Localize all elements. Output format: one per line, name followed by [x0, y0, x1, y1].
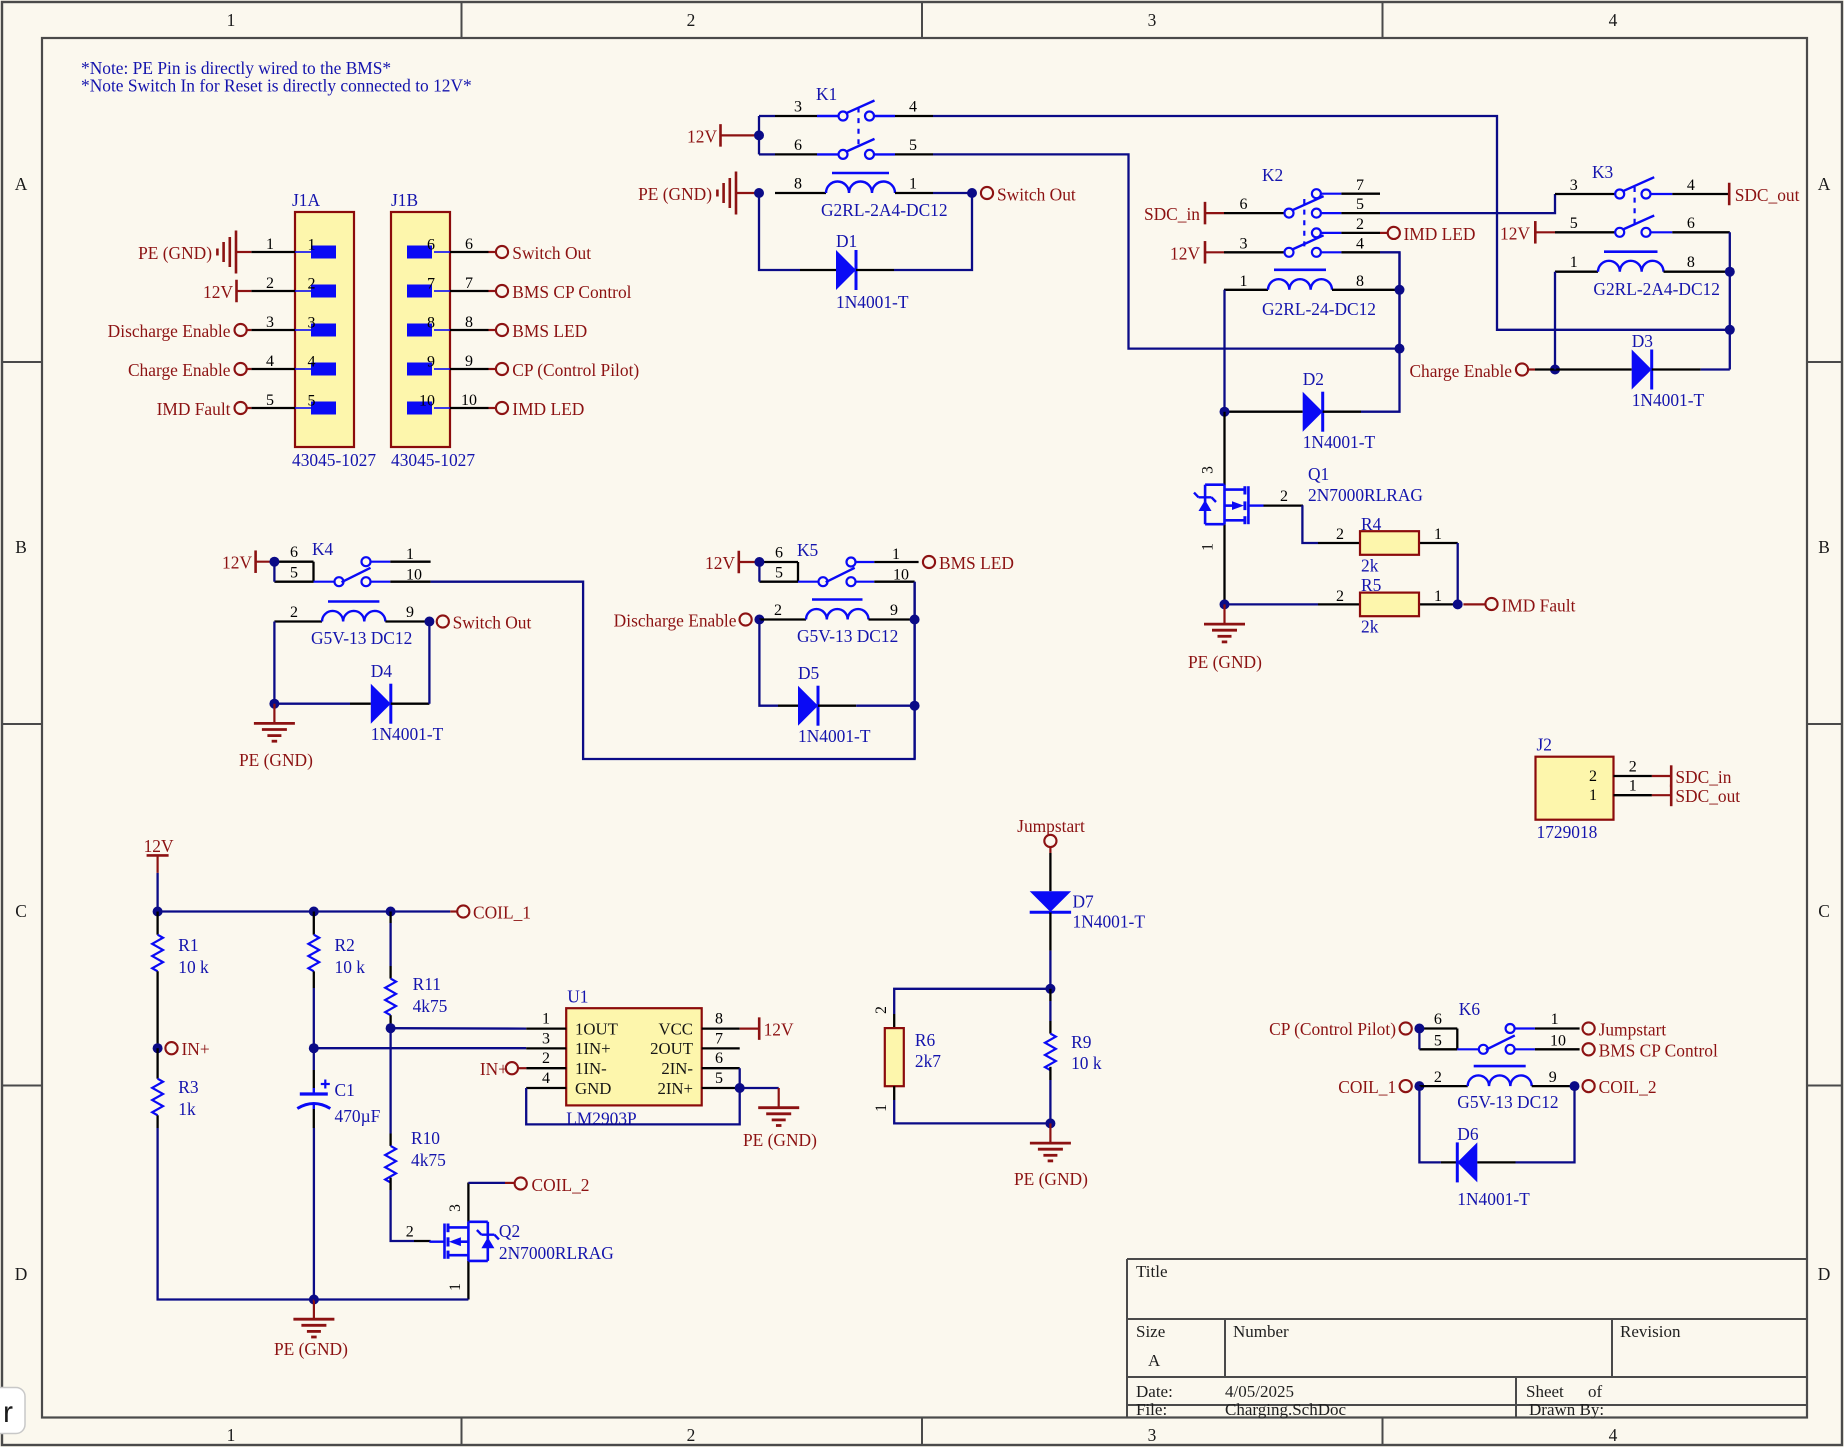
wire K5 pin 10 down [913, 582, 915, 759]
svg-text:470µF: 470µF [335, 1106, 381, 1126]
wire to U1 pin 1 [391, 1027, 527, 1030]
svg-text:Title: Title [1136, 1262, 1168, 1281]
svg-text:Jumpstart: Jumpstart [1017, 816, 1085, 836]
power port 12V at U1 VCC [740, 1027, 760, 1029]
svg-text:6: 6 [1240, 196, 1248, 213]
net label BMS LED at J1B [489, 329, 497, 331]
svg-text:Q2: Q2 [499, 1221, 520, 1241]
svg-text:1N4001-T: 1N4001-T [1303, 432, 1376, 452]
svg-text:D: D [15, 1264, 28, 1284]
svg-text:3: 3 [1200, 466, 1217, 474]
wire 12V horizontal rail [158, 910, 451, 912]
junction at R5 pin 1 [1453, 599, 1463, 609]
svg-text:D5: D5 [798, 663, 820, 683]
svg-text:1N4001-T: 1N4001-T [836, 292, 909, 312]
junction at K4 12V [269, 557, 279, 567]
svg-text:12V: 12V [764, 1020, 794, 1040]
svg-text:43045-1027: 43045-1027 [391, 450, 475, 470]
svg-text:R10: R10 [411, 1128, 440, 1148]
ground PE (GND) at K4 [273, 704, 275, 723]
svg-text:2k7: 2k7 [915, 1051, 941, 1071]
wire C1 to ground rail [313, 1128, 315, 1300]
svg-text:U1: U1 [567, 987, 588, 1007]
net label BMS CP Control at J1B [489, 290, 497, 292]
svg-text:BMS CP Control: BMS CP Control [512, 282, 631, 302]
wire K2 pin 4 down [1380, 252, 1400, 348]
svg-text:10 k: 10 k [335, 957, 366, 977]
svg-text:B: B [15, 537, 27, 557]
svg-text:G5V-13 DC12: G5V-13 DC12 [311, 628, 412, 648]
svg-text:5: 5 [1570, 215, 1578, 232]
svg-text:Sheet: Sheet [1526, 1382, 1564, 1401]
svg-text:2: 2 [406, 1224, 414, 1241]
junction at K1 coil pin 8 [754, 188, 764, 198]
wire U1 pin 6 to pin 5 [739, 1068, 741, 1088]
wire K1 pole feed [758, 116, 760, 154]
tooltip artifact [0, 1388, 25, 1434]
svg-text:1: 1 [266, 236, 274, 253]
svg-text:IN+: IN+ [480, 1059, 508, 1079]
svg-text:D2: D2 [1303, 369, 1324, 389]
svg-text:1: 1 [227, 10, 236, 30]
wire R10 to Q2 gate [391, 1190, 414, 1241]
net label Switch Out at K1 coil pin 1 [981, 187, 993, 199]
ground PE (GND) at R9 [1049, 1123, 1051, 1142]
svg-text:4: 4 [909, 99, 917, 116]
svg-text:3: 3 [794, 99, 802, 116]
svg-text:8: 8 [427, 315, 435, 332]
svg-text:K3: K3 [1592, 162, 1614, 182]
svg-text:G5V-13 DC12: G5V-13 DC12 [797, 626, 898, 646]
svg-text:7: 7 [465, 275, 473, 292]
svg-text:5: 5 [775, 565, 783, 582]
svg-text:C: C [15, 901, 27, 921]
svg-text:2: 2 [687, 10, 696, 30]
svg-text:SDC_in: SDC_in [1144, 204, 1200, 224]
junction at IN+ node [153, 1043, 163, 1053]
wire K2 coil loop [1223, 290, 1225, 412]
svg-text:4: 4 [1356, 236, 1364, 253]
net label BMS LED at K5 pin 1 [923, 556, 935, 568]
net label COIL_2 at Q2 drain [468, 1182, 505, 1184]
svg-text:9: 9 [1549, 1069, 1557, 1086]
svg-text:File:: File: [1136, 1400, 1167, 1419]
wire D7 to R9 [1049, 951, 1051, 989]
svg-text:2: 2 [1434, 1069, 1442, 1086]
svg-text:Number: Number [1233, 1322, 1289, 1341]
svg-text:IMD LED: IMD LED [512, 399, 584, 419]
svg-text:1729018: 1729018 [1537, 822, 1598, 842]
svg-text:4: 4 [1609, 1425, 1618, 1445]
svg-text:COIL_2: COIL_2 [532, 1175, 590, 1195]
svg-text:12V: 12V [705, 553, 735, 573]
net label COIL_1 at rail [450, 910, 457, 912]
net label Jumpstart at K6 pin 1 [1583, 1022, 1595, 1034]
svg-text:B: B [1818, 537, 1830, 557]
wire K2 pin 5 to K3 pin 3 [1380, 194, 1555, 213]
svg-text:3: 3 [542, 1030, 550, 1047]
svg-text:2: 2 [1629, 759, 1637, 776]
svg-text:VCC: VCC [658, 1019, 693, 1038]
svg-text:R1: R1 [178, 935, 198, 955]
svg-text:1N4001-T: 1N4001-T [1632, 390, 1705, 410]
svg-text:PE (GND): PE (GND) [239, 750, 313, 770]
svg-text:PE (GND): PE (GND) [743, 1130, 817, 1150]
svg-text:5: 5 [715, 1070, 723, 1087]
wire K3 coil loop [1554, 272, 1556, 370]
svg-text:2: 2 [774, 602, 782, 619]
svg-text:of: of [1588, 1382, 1603, 1401]
svg-text:Drawn By:: Drawn By: [1529, 1400, 1604, 1419]
wire 12V rail [156, 873, 158, 912]
junction at K5 12V [754, 557, 764, 567]
connector J1A [295, 212, 354, 447]
svg-text:Date:: Date: [1136, 1382, 1173, 1401]
svg-text:1: 1 [1570, 254, 1578, 271]
svg-text:9: 9 [890, 602, 898, 619]
svg-text:2: 2 [542, 1050, 550, 1067]
net label IMD LED at K2 pin 2 [1380, 232, 1388, 234]
svg-text:9: 9 [465, 353, 473, 370]
svg-text:12V: 12V [144, 836, 174, 856]
svg-text:4: 4 [1687, 177, 1695, 194]
svg-text:r: r [3, 1396, 13, 1429]
svg-text:12V: 12V [687, 126, 717, 146]
svg-text:1N4001-T: 1N4001-T [798, 726, 871, 746]
wire Q2 source to rail [314, 1298, 469, 1300]
svg-text:2: 2 [1356, 216, 1364, 233]
net label Switch Out at J1B [489, 251, 497, 253]
svg-text:R11: R11 [413, 974, 441, 994]
junction at R11 top [386, 907, 396, 917]
wire R2 to C1 [313, 988, 315, 1048]
junction at K4 ground node [269, 699, 279, 709]
svg-text:12V: 12V [222, 553, 252, 573]
svg-text:10: 10 [1550, 1032, 1566, 1049]
svg-text:1: 1 [1434, 588, 1442, 605]
svg-text:5: 5 [1356, 196, 1364, 213]
svg-text:5: 5 [1434, 1032, 1442, 1049]
svg-text:*Note Switch In for Reset is d: *Note Switch In for Reset is directly co… [81, 76, 472, 96]
svg-text:D7: D7 [1073, 892, 1095, 912]
svg-text:2k: 2k [1361, 556, 1379, 576]
svg-text:R2: R2 [335, 935, 355, 955]
svg-text:J1A: J1A [292, 190, 320, 210]
svg-text:Charge Enable: Charge Enable [1409, 361, 1512, 381]
svg-text:PE (GND): PE (GND) [638, 184, 712, 204]
svg-text:1: 1 [909, 176, 917, 193]
junction at K5 coil pin 9 [910, 615, 920, 625]
svg-text:5: 5 [266, 392, 274, 409]
svg-text:Revision: Revision [1620, 1322, 1681, 1341]
svg-text:10 k: 10 k [178, 957, 209, 977]
svg-text:2: 2 [687, 1425, 696, 1445]
svg-text:G5V-13 DC12: G5V-13 DC12 [1457, 1092, 1558, 1112]
svg-text:G2RL-2A4-DC12: G2RL-2A4-DC12 [821, 200, 948, 220]
svg-text:1: 1 [1200, 543, 1217, 551]
wire R6 bottom [894, 1100, 1050, 1123]
svg-text:D1: D1 [836, 231, 857, 251]
svg-text:1: 1 [1551, 1011, 1559, 1028]
svg-text:4: 4 [542, 1070, 550, 1087]
wire net from K1 pin 5 [933, 154, 1400, 348]
svg-text:4k75: 4k75 [411, 1150, 446, 1170]
svg-text:4: 4 [1609, 10, 1618, 30]
svg-text:Q1: Q1 [1308, 464, 1329, 484]
junction at K6 coil pin 9 [1570, 1081, 1580, 1091]
svg-text:K1: K1 [816, 84, 837, 104]
junction at K3 coil pin 8 [1725, 267, 1735, 277]
junction at R9 top [1045, 984, 1055, 994]
svg-text:8: 8 [1356, 273, 1364, 290]
power port 12V top of divider [147, 854, 169, 857]
svg-text:D6: D6 [1457, 1124, 1479, 1144]
connector J1B [391, 212, 450, 447]
svg-text:SDC_in: SDC_in [1675, 767, 1731, 787]
svg-text:2: 2 [308, 276, 316, 293]
svg-text:K2: K2 [1262, 165, 1283, 185]
junction at K6 coil pin 2 [1414, 1081, 1424, 1091]
svg-text:1: 1 [1434, 526, 1442, 543]
net label IN+ left [165, 1042, 177, 1054]
junction at K1 coil pin 1 [967, 188, 977, 198]
svg-text:8: 8 [715, 1011, 723, 1028]
svg-text:1N4001-T: 1N4001-T [1073, 912, 1146, 932]
wire R4 to R5 [1457, 543, 1459, 604]
svg-text:Discharge Enable: Discharge Enable [614, 611, 737, 631]
junction at K4 coil pin 9 [424, 617, 434, 627]
svg-text:2: 2 [1336, 588, 1344, 605]
svg-text:5: 5 [909, 137, 917, 154]
svg-text:CP (Control Pilot): CP (Control Pilot) [512, 360, 639, 380]
svg-text:CP (Control Pilot): CP (Control Pilot) [1269, 1019, 1396, 1039]
svg-text:7: 7 [427, 276, 435, 293]
svg-text:2: 2 [266, 275, 274, 292]
net label CP (Control Pilot) at J1B [489, 368, 497, 370]
wire Q1 source to R5 [1225, 603, 1319, 605]
svg-text:Switch Out: Switch Out [453, 613, 532, 633]
net label BMS CP Control at K6 pin 10 [1583, 1043, 1595, 1055]
svg-text:9: 9 [427, 354, 435, 371]
junction at D3 anode [1550, 365, 1560, 375]
svg-text:COIL_1: COIL_1 [1338, 1077, 1396, 1097]
svg-text:COIL_1: COIL_1 [473, 903, 531, 923]
svg-text:2N7000RLRAG: 2N7000RLRAG [499, 1243, 614, 1263]
svg-text:2: 2 [1589, 768, 1597, 785]
svg-text:2IN+: 2IN+ [657, 1079, 693, 1098]
svg-text:1: 1 [308, 237, 316, 254]
svg-text:6: 6 [465, 236, 473, 253]
svg-text:5: 5 [290, 565, 298, 582]
svg-text:3: 3 [1240, 236, 1248, 253]
svg-text:2N7000RLRAG: 2N7000RLRAG [1308, 485, 1423, 505]
junction at K1 12V [754, 130, 764, 140]
wire K4 pin 10 to K5 [431, 582, 915, 759]
svg-text:6: 6 [1687, 215, 1695, 232]
svg-text:1: 1 [227, 1425, 236, 1445]
svg-text:IMD LED: IMD LED [1404, 224, 1476, 244]
svg-text:C1: C1 [335, 1080, 355, 1100]
svg-text:2: 2 [290, 604, 298, 621]
connector J2 1729018 [1536, 757, 1614, 820]
svg-text:1N4001-T: 1N4001-T [1457, 1189, 1530, 1209]
svg-text:K5: K5 [797, 540, 819, 560]
svg-text:D: D [1818, 1264, 1831, 1284]
svg-text:2: 2 [873, 1006, 890, 1014]
svg-text:4: 4 [266, 353, 274, 370]
svg-text:3: 3 [1148, 1425, 1157, 1445]
svg-text:1: 1 [892, 546, 900, 563]
svg-text:1IN+: 1IN+ [575, 1039, 611, 1058]
wire K4 coil loop [274, 622, 350, 704]
svg-text:J1B: J1B [391, 190, 418, 210]
power port SDC_out at J2 pin 1 [1652, 794, 1671, 796]
svg-text:COIL_2: COIL_2 [1599, 1077, 1657, 1097]
capacitor C1 470uF [313, 1048, 315, 1070]
svg-text:6: 6 [427, 237, 435, 254]
svg-text:1IN-: 1IN- [575, 1059, 607, 1078]
wire to R6 top [894, 989, 1050, 1014]
svg-text:A: A [1818, 174, 1831, 194]
svg-text:5: 5 [308, 393, 316, 410]
svg-text:1: 1 [1629, 778, 1637, 795]
svg-text:12V: 12V [1500, 223, 1530, 243]
power port SDC_out at K3 pin 4 [1728, 183, 1731, 206]
svg-text:2: 2 [1280, 488, 1288, 505]
svg-text:1: 1 [873, 1104, 890, 1112]
op-amp U1 LM2903P [566, 1008, 702, 1105]
power port SDC_in at J2 pin 2 [1652, 775, 1671, 777]
svg-text:Size: Size [1136, 1322, 1165, 1341]
wire K1 snubber loop [759, 193, 800, 270]
net label IMD Fault at R5 [1463, 603, 1485, 605]
net label Switch Out at K4 [437, 615, 449, 627]
svg-text:PE (GND): PE (GND) [138, 243, 212, 263]
svg-text:7: 7 [715, 1030, 723, 1047]
svg-text:6: 6 [775, 545, 783, 562]
wire net from K1 pin 4 [933, 116, 1730, 330]
svg-text:C: C [1818, 901, 1830, 921]
svg-text:GND: GND [575, 1079, 611, 1098]
svg-text:3: 3 [266, 314, 274, 331]
svg-text:BMS CP Control: BMS CP Control [1599, 1040, 1718, 1060]
wire K3 pin 6 down [1729, 232, 1731, 369]
svg-text:10: 10 [419, 393, 435, 410]
junction at R9 bottom [1045, 1118, 1055, 1128]
svg-text:1: 1 [1240, 273, 1248, 290]
svg-text:4: 4 [308, 354, 316, 371]
svg-text:IMD Fault: IMD Fault [157, 399, 231, 419]
junction at K5 coil pin 2 [754, 615, 764, 625]
svg-text:4/05/2025: 4/05/2025 [1225, 1382, 1294, 1401]
svg-text:3: 3 [447, 1204, 464, 1212]
svg-text:9: 9 [406, 604, 414, 621]
svg-text:1: 1 [542, 1011, 550, 1028]
svg-text:1: 1 [406, 546, 414, 563]
wire U1 GND loop [526, 1088, 740, 1124]
svg-text:K6: K6 [1459, 999, 1481, 1019]
svg-text:BMS LED: BMS LED [939, 553, 1014, 573]
svg-text:2IN-: 2IN- [661, 1059, 693, 1078]
ground PE (GND) at Q1 source [1223, 604, 1225, 623]
junction at K5 snubber [910, 701, 920, 711]
svg-text:IN+: IN+ [182, 1039, 210, 1059]
svg-text:1: 1 [1589, 787, 1597, 804]
svg-text:2: 2 [1336, 526, 1344, 543]
svg-text:10 k: 10 k [1071, 1053, 1102, 1073]
svg-text:1OUT: 1OUT [575, 1019, 618, 1038]
svg-text:PE (GND): PE (GND) [274, 1339, 348, 1359]
svg-text:3: 3 [308, 315, 316, 332]
junction at U1 1OUT node [386, 1023, 396, 1033]
svg-text:6: 6 [715, 1050, 723, 1067]
svg-text:8: 8 [1687, 254, 1695, 271]
wire K5 coil loop [759, 620, 778, 706]
svg-text:Discharge Enable: Discharge Enable [108, 321, 231, 341]
svg-text:12V: 12V [1170, 243, 1200, 263]
junction at K2 coil pin 8 [1395, 285, 1405, 295]
svg-text:PE (GND): PE (GND) [1188, 652, 1262, 672]
svg-text:10: 10 [461, 392, 477, 409]
svg-text:SDC_out: SDC_out [1675, 786, 1740, 806]
svg-text:3: 3 [1148, 10, 1157, 30]
net label IMD LED at J1B [489, 407, 497, 409]
wire to U1 pin 3 [314, 1047, 526, 1049]
svg-text:3: 3 [1570, 177, 1578, 194]
junction at Q1 source [1220, 599, 1230, 609]
junction at K3 node from K1 [1725, 325, 1735, 335]
wire Q1 gate to R4 [1302, 505, 1318, 543]
svg-text:R9: R9 [1071, 1032, 1091, 1052]
svg-text:2OUT: 2OUT [650, 1039, 693, 1058]
svg-text:R6: R6 [915, 1030, 936, 1050]
svg-text:Jumpstart: Jumpstart [1599, 1020, 1667, 1040]
svg-text:Switch Out: Switch Out [512, 243, 591, 263]
title block [1127, 1259, 1807, 1418]
svg-text:BMS LED: BMS LED [512, 321, 587, 341]
svg-text:Charging.SchDoc: Charging.SchDoc [1225, 1400, 1346, 1419]
svg-text:K4: K4 [312, 539, 334, 559]
wire K6 coil loop [1419, 1086, 1441, 1162]
svg-text:2k: 2k [1361, 617, 1379, 637]
junction at R2 top [309, 907, 319, 917]
junction at U1 pin 5 [735, 1083, 745, 1093]
svg-text:1: 1 [447, 1283, 464, 1291]
junction at D2 anode [1220, 407, 1230, 417]
svg-text:12V: 12V [203, 282, 233, 302]
ground PE (GND) at U1 [778, 1088, 780, 1107]
svg-text:6: 6 [794, 137, 802, 154]
svg-text:IMD Fault: IMD Fault [1502, 596, 1576, 616]
svg-text:A: A [1148, 1351, 1161, 1370]
svg-text:D3: D3 [1632, 331, 1654, 351]
svg-text:R3: R3 [178, 1077, 199, 1097]
ground PE (GND) bottom left [313, 1300, 315, 1319]
svg-text:43045-1027: 43045-1027 [292, 450, 376, 470]
svg-text:D4: D4 [371, 661, 393, 681]
net label COIL_2 at K6 coil pin 9 [1583, 1080, 1595, 1092]
svg-text:8: 8 [794, 176, 802, 193]
svg-text:PE (GND): PE (GND) [1014, 1169, 1088, 1189]
svg-text:G2RL-2A4-DC12: G2RL-2A4-DC12 [1593, 279, 1720, 299]
svg-text:7: 7 [1356, 177, 1364, 194]
svg-text:4k75: 4k75 [413, 996, 448, 1016]
svg-text:6: 6 [290, 544, 298, 561]
junction at R1 top [153, 907, 163, 917]
svg-text:G2RL-24-DC12: G2RL-24-DC12 [1262, 299, 1376, 319]
svg-text:Switch Out: Switch Out [997, 185, 1076, 205]
wire U1 pin5 to ground [740, 1087, 779, 1089]
